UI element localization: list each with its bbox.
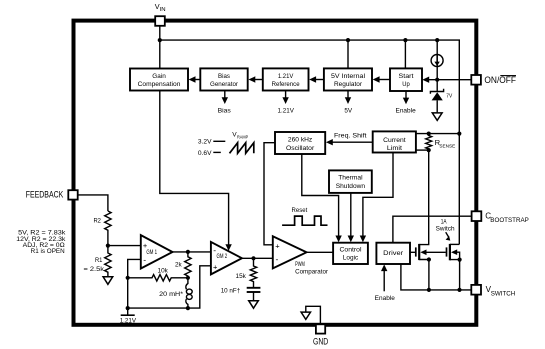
wire current limit to oscillator (332, 141, 373, 143)
node on/off junction (435, 78, 439, 82)
wire GM2 output to PWM - (242, 257, 273, 259)
arrow Enable output of start up (403, 91, 409, 104)
resistor 2k (185, 252, 191, 278)
zener diode 7V (430, 80, 443, 113)
svg-text:SENSE: SENSE (439, 143, 455, 149)
svg-text:ON/OFF: ON/OFF (484, 75, 516, 85)
svg-text:SWITCH: SWITCH (491, 291, 516, 298)
resistor RSENSE (426, 134, 432, 151)
block Current Limit (373, 131, 416, 152)
svg-text:R1: R1 (95, 257, 103, 264)
node inductor bottom (186, 306, 190, 310)
svg-text:Up: Up (402, 81, 410, 88)
svg-text:1.21V: 1.21V (278, 108, 295, 115)
svg-text:-: - (276, 254, 279, 264)
wire GM1 output to GM2 (173, 251, 211, 253)
svg-text:Driver: Driver (383, 250, 404, 257)
svg-text:Thermal: Thermal (338, 175, 363, 182)
node M1 source (427, 257, 431, 261)
arrow osc into control logic (335, 236, 341, 243)
block Driver (376, 243, 410, 264)
node right rail junction (457, 132, 461, 136)
svg-text:7V: 7V (446, 93, 452, 99)
node VIN junction (158, 38, 162, 42)
node 2k 10k junction (186, 276, 190, 280)
node M2 source (458, 258, 462, 262)
arrow thermal into control logic (348, 236, 354, 243)
arrow 1.21V output (282, 91, 288, 105)
resistor R2 (105, 211, 111, 246)
svg-text:260 kHz: 260 kHz (288, 137, 312, 144)
block Start Up (390, 68, 422, 91)
wire start up to 5V reg (379, 79, 390, 81)
svg-text:+: + (213, 263, 218, 272)
svg-text:GM 2: GM 2 (217, 253, 228, 260)
wire feedback to R2 (78, 195, 108, 211)
svg-text:1.21V: 1.21V (278, 73, 294, 80)
ground below 10nF (249, 301, 259, 309)
wire VIN vertical to gain comp and below (160, 26, 229, 248)
wire thermal shutdown to control logic (350, 193, 352, 237)
ground symbol at GND pin (301, 312, 310, 319)
svg-text:Gain: Gain (152, 73, 166, 80)
wire top rail y=40 (160, 40, 460, 244)
block 1.21V Reference (263, 68, 309, 90)
wire ON/OFF to start up (429, 79, 472, 81)
wire current limit to Rsense top (416, 133, 459, 135)
svg-text:= 2.5k: = 2.5k (84, 266, 105, 273)
svg-text:10k: 10k (158, 268, 169, 275)
pin square CBOOTSTRAP (472, 211, 482, 221)
pin square ON/OFF (471, 75, 481, 85)
arrow into start up (422, 77, 429, 83)
arrow 5V output (345, 91, 351, 105)
node GM1 output (186, 250, 190, 254)
wire current limit to control logic (363, 153, 393, 238)
tick 0.6V level (213, 151, 221, 153)
svg-text:Bias: Bias (218, 108, 231, 115)
wire oscillator to control logic (302, 154, 339, 237)
transistor M2 1A switch (447, 244, 460, 290)
wire 5V reg feed (347, 40, 349, 68)
IC outline frame (74, 21, 477, 325)
ground below R1 (103, 277, 113, 285)
op-amp GM1 (141, 235, 173, 268)
svg-text:10 nF†: 10 nF† (221, 287, 241, 294)
wire bottom 1.21V rail to GM2 + (128, 266, 211, 308)
svg-text:Current: Current (383, 137, 406, 144)
block Gain Compensation (130, 69, 188, 91)
svg-text:5V Internal: 5V Internal (331, 73, 366, 80)
svg-text:R1 is OPEN: R1 is OPEN (31, 248, 65, 255)
wire driver top to bootstrap (393, 216, 472, 243)
svg-text:Limit: Limit (387, 145, 402, 152)
svg-text:Oscillator: Oscillator (286, 145, 315, 152)
arrow Enable into driver (381, 264, 387, 291)
svg-text:Enable: Enable (375, 295, 396, 302)
arrow Bias output (222, 91, 228, 105)
node current source feed (435, 38, 439, 42)
node vswitch M1 (427, 288, 431, 292)
svg-text:FEEDBACK: FEEDBACK (26, 190, 64, 200)
resistor 10k (128, 275, 188, 281)
node R2 R1 junction (106, 244, 110, 248)
svg-text:Generator: Generator (210, 81, 239, 88)
svg-text:5V: 5V (344, 108, 353, 115)
svg-text:Shutdown: Shutdown (336, 183, 366, 190)
1.21V rail stub (127, 308, 129, 315)
svg-text:Switch: Switch (436, 225, 455, 232)
arrow current limit into control logic (360, 236, 366, 243)
arrow into oscillator (326, 139, 333, 145)
svg-text:Compensation: Compensation (138, 81, 181, 88)
svg-text:Bias: Bias (218, 73, 231, 80)
block Thermal Shutdown (329, 170, 372, 193)
pin square GND (316, 324, 325, 333)
block Control Logic (333, 243, 368, 264)
op-amp GM2 (211, 242, 242, 275)
svg-text:Reset: Reset (292, 207, 308, 214)
svg-text:GND: GND (313, 337, 329, 347)
svg-text:IN: IN (160, 7, 166, 13)
tick 3.2V level (213, 140, 225, 142)
svg-text:Regulator: Regulator (334, 81, 363, 88)
comparator PWM (273, 236, 307, 268)
wire driver bottom to vswitch (401, 264, 471, 290)
wire oscillator ramp out to PWM + (264, 143, 275, 245)
svg-text:1.21V: 1.21V (120, 317, 137, 324)
svg-text:R2: R2 (93, 217, 101, 224)
wire start up feed (404, 40, 406, 68)
wire junction to GM1 + (108, 245, 141, 247)
transistor M1 1A switch (416, 150, 446, 290)
inductor 20mH (186, 278, 192, 308)
svg-text:2k: 2k (175, 262, 183, 269)
arrow into gain comp (189, 76, 196, 82)
svg-text:BOOTSTRAP: BOOTSTRAP (490, 217, 529, 224)
svg-text:3.2V: 3.2V (198, 139, 212, 146)
block 5V Internal Regulator (324, 68, 372, 90)
svg-text:Freq. Shift: Freq. Shift (334, 132, 367, 139)
current source I1 (431, 55, 443, 67)
pin square VIN (155, 16, 165, 26)
annotation resistor values (16, 230, 66, 255)
arrow into ref (309, 76, 316, 82)
svg-text:Control: Control (340, 246, 363, 253)
arrow 1A switch pointer (446, 232, 451, 240)
svg-text:PWM: PWM (295, 261, 305, 268)
svg-text:20 mH*: 20 mH* (159, 291, 183, 298)
svg-text:Enable: Enable (396, 108, 417, 115)
wire current source feed (436, 40, 438, 80)
block Bias Generator (200, 68, 247, 90)
wire driver to gate M1 (410, 251, 415, 253)
svg-text:RAMP: RAMP (237, 135, 248, 141)
svg-text:Comparator: Comparator (295, 269, 328, 276)
wire bias gen to gain comp (195, 79, 200, 81)
node GM1 minus 10k junction (126, 276, 130, 280)
reset waveform (282, 216, 327, 225)
ramp waveform (230, 143, 254, 154)
wire 5V reg to ref (316, 79, 324, 81)
svg-text:Logic: Logic (343, 255, 359, 262)
ground below zener (432, 113, 442, 121)
wire GND jog (306, 306, 321, 324)
svg-text:+: + (275, 241, 280, 250)
svg-text:15k: 15k (236, 273, 247, 280)
pin square VSWITCH (471, 285, 481, 295)
pin square FEEDBACK (68, 190, 77, 199)
resistor R1 (105, 246, 111, 277)
node 1.21V rail (126, 306, 130, 310)
capacitor 10nF (247, 288, 261, 301)
node GM2 output (251, 256, 255, 260)
wire PWM output to control logic (307, 251, 334, 253)
svg-text:Start: Start (399, 73, 414, 80)
svg-text:GM 1: GM 1 (146, 249, 157, 256)
block 260 kHz Oscillator (275, 132, 325, 154)
resistor 15k (250, 258, 256, 287)
wire GM1 - input (128, 259, 141, 308)
node 5V reg feed (346, 38, 350, 42)
svg-text:0.6V: 0.6V (198, 150, 212, 157)
node Rsense top (427, 132, 431, 136)
wire current limit to Rsense bottom (416, 149, 429, 151)
wire ref to bias gen (255, 79, 263, 81)
arrow into 5V reg (373, 76, 380, 82)
arrow gain comp into GM2 top (225, 244, 231, 251)
arrow into bias gen (248, 76, 255, 82)
node vswitch M2 (457, 288, 461, 292)
node start up feed (403, 38, 407, 42)
svg-text:Reference: Reference (272, 81, 300, 88)
node Rsense bottom (427, 148, 431, 152)
